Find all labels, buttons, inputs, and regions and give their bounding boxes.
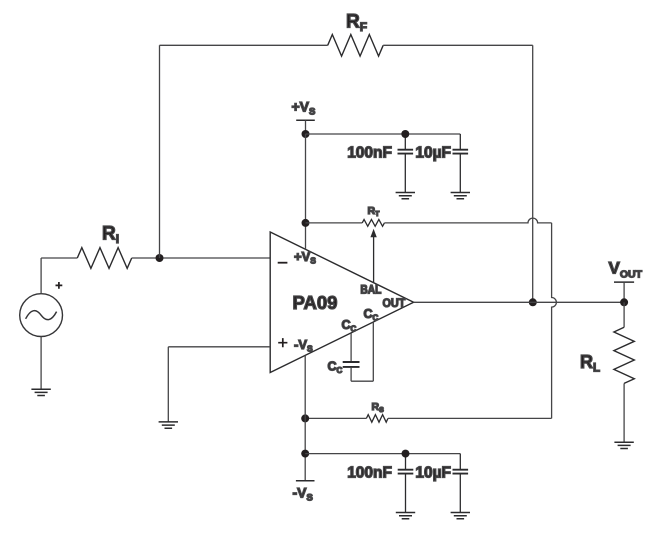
compensation capacitor CC	[343, 362, 360, 367]
resistor RI	[77, 248, 131, 269]
junction dot VOUT	[620, 298, 628, 306]
svg-text:PA09: PA09	[293, 292, 338, 313]
capacitor C4 10uF bottom	[453, 454, 469, 513]
Cc left pin	[350, 333, 352, 361]
junction dot +VS/RT line	[302, 219, 310, 227]
svg-text:RT: RT	[368, 205, 381, 218]
svg-text:CC: CC	[342, 318, 357, 333]
wire: input right segment to inverting input	[132, 257, 270, 259]
junction dot -VS rail	[301, 450, 309, 458]
svg-text:100nF: 100nF	[347, 145, 392, 162]
wire: source top to input line	[40, 258, 42, 294]
svg-text:VOUT: VOUT	[609, 259, 643, 281]
Cc right pin	[372, 322, 374, 381]
wire: VOUT to RL	[623, 302, 625, 327]
svg-text:-VS: -VS	[294, 337, 313, 354]
ground (noninverting input)	[159, 422, 178, 428]
svg-text:CC: CC	[328, 360, 343, 375]
ground (RL)	[614, 442, 633, 448]
ground (C2)	[451, 193, 470, 199]
svg-text:RL: RL	[580, 352, 600, 375]
wire: op-amp output	[414, 301, 624, 303]
wire: feedback drop to output	[532, 45, 534, 302]
svg-text:RF: RF	[346, 12, 367, 35]
svg-text:10µF: 10µF	[415, 145, 451, 162]
inverting input minus symbol	[278, 262, 288, 264]
capacitor C1 100nF top	[398, 134, 414, 193]
wire: RL to ground	[623, 383, 625, 442]
ground (C1)	[396, 193, 415, 199]
wire: op-amp -VS pin down	[304, 355, 306, 480]
wire: feedback top left	[160, 44, 328, 46]
RT wiper arrow (BAL pin)	[370, 229, 376, 283]
wire: VOUT stem	[623, 282, 625, 302]
resistor RL	[614, 327, 634, 383]
resistor RS	[366, 415, 388, 423]
potentiometer RT	[362, 220, 384, 227]
wire: RT right segment with hop over feedback	[384, 218, 551, 223]
svg-text:OUT: OUT	[383, 298, 406, 310]
junction dot C1 rail	[401, 130, 409, 138]
supply terminal -VS bar	[296, 480, 315, 482]
wire: +VS rail to caps	[306, 133, 461, 135]
wire: CC lower stem	[350, 368, 352, 382]
wire: balance riser with hop over output	[552, 223, 557, 419]
ground (C4)	[451, 513, 470, 519]
svg-text:+VS: +VS	[292, 99, 316, 118]
svg-text:-VS: -VS	[293, 485, 313, 504]
svg-text:RI: RI	[102, 224, 119, 247]
ground (source)	[31, 389, 50, 395]
wire: feedback riser	[159, 45, 161, 258]
svg-text:CC: CC	[364, 307, 379, 322]
+ polarity mark	[56, 282, 63, 289]
wire: feedback top right	[383, 44, 533, 46]
junction dot C3 rail	[402, 450, 410, 458]
wire: -VS rail to caps	[305, 453, 460, 455]
wire: RT left segment	[306, 222, 363, 224]
node A junction dot (input/feedback)	[156, 254, 164, 262]
svg-text:RS: RS	[372, 401, 385, 414]
wire: noninverting input horizontal	[168, 346, 270, 348]
AC source V1	[20, 294, 63, 337]
svg-text:+VS: +VS	[294, 249, 316, 266]
resistor RF	[328, 35, 383, 57]
terminal VOUT bar	[614, 281, 634, 283]
svg-text:10µF: 10µF	[415, 465, 451, 482]
noninverting input plus symbol	[278, 338, 287, 347]
svg-text:BAL: BAL	[360, 284, 381, 296]
svg-text:100nF: 100nF	[347, 465, 392, 482]
junction dot RS/-VS rail	[301, 414, 309, 422]
supply terminal +VS bar	[296, 119, 315, 121]
capacitor C2 10uF top	[453, 134, 469, 193]
wire: input left segment	[41, 257, 77, 259]
wire: CC bottom link	[351, 380, 373, 382]
wire: noninverting input drop	[167, 347, 169, 422]
junction dot feedback/output	[529, 298, 537, 306]
ground (C3)	[396, 513, 415, 519]
wire: +VS stem	[305, 120, 307, 134]
wire: RS right segment	[388, 417, 552, 419]
wire: source bottom lead	[40, 337, 42, 390]
wire: RS left segment	[305, 417, 366, 419]
junction dot +VS rail	[302, 130, 310, 138]
capacitor C3 100nF bottom	[398, 454, 414, 513]
wire: +VS down to op-amp supply pin	[305, 134, 307, 249]
op-amp U1 PA09	[270, 232, 413, 373]
